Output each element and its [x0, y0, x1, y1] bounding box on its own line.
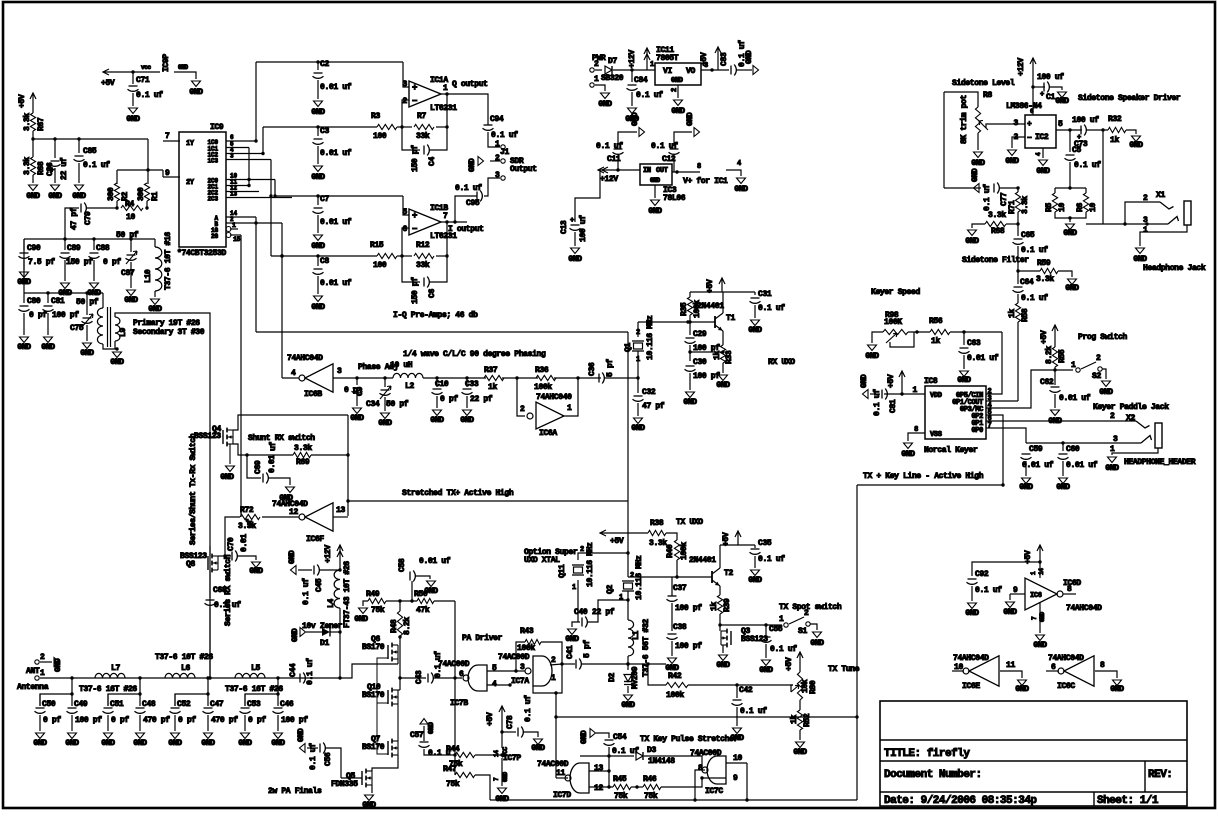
- svg-text:L10: L10: [144, 269, 153, 283]
- capacitor C79 47pf: [86, 207, 117, 209]
- capacitor C13 100uf: [575, 170, 600, 222]
- svg-text:0.01 uf: 0.01 uf: [1066, 461, 1098, 470]
- ground: [751, 570, 760, 576]
- ground: [478, 157, 484, 166]
- wire -in: [402, 228, 409, 256]
- svg-text:C87: C87: [121, 269, 135, 278]
- svg-text:FDN335: FDN335: [331, 780, 358, 789]
- ground: [601, 93, 610, 99]
- svg-text:VSS: VSS: [930, 431, 942, 439]
- svg-text:GND: GND: [1133, 255, 1147, 264]
- svg-text:X2: X2: [1126, 414, 1135, 423]
- ground: [83, 343, 92, 349]
- svg-text:GND: GND: [126, 115, 140, 124]
- ground: [20, 337, 29, 343]
- capacitor C48 470 pf: [139, 694, 141, 706]
- capacitor C41 5pf: [575, 660, 577, 669]
- svg-text:C69: C69: [254, 460, 263, 474]
- svg-text:R44: R44: [446, 745, 460, 754]
- inverter IC6D: [1039, 562, 1041, 578]
- svg-text:2: 2: [403, 97, 408, 106]
- svg-text:C75: C75: [70, 324, 84, 333]
- ground: [1113, 680, 1122, 686]
- op-amp IC1A: [409, 81, 441, 107]
- wire stretched TX: [348, 500, 628, 502]
- svg-text:0.1 uf: 0.1 uf: [612, 747, 639, 756]
- svg-text:R15: R15: [370, 241, 384, 250]
- ground sideways: [863, 390, 869, 399]
- svg-text:Norcal Keyer: Norcal Keyer: [924, 446, 978, 455]
- resistor R1 300: [147, 170, 149, 184]
- svg-text:8K trim pot: 8K trim pot: [960, 94, 969, 144]
- svg-text:GND: GND: [41, 343, 55, 352]
- ground: [171, 733, 180, 739]
- svg-text:0.1 uf: 0.1 uf: [636, 91, 663, 100]
- diode D3 1N4148: [580, 755, 634, 757]
- pin4 wire to prog switch: [986, 370, 1055, 408]
- svg-text:R68: R68: [991, 227, 1005, 236]
- pin3 wire to sidetone: [986, 400, 1018, 402]
- svg-text:GND: GND: [101, 739, 115, 748]
- ground sideways: [300, 628, 306, 637]
- svg-text:R12: R12: [416, 241, 430, 250]
- IC9 pin bubbles: [226, 227, 231, 232]
- svg-text:2: 2: [40, 653, 45, 662]
- svg-text:0.1 uf: 0.1 uf: [983, 184, 992, 211]
- svg-text:C43: C43: [415, 670, 424, 684]
- svg-text:C94: C94: [490, 115, 504, 124]
- inductor L2 10uH: [357, 377, 393, 379]
- capacitor C57: [420, 719, 428, 725]
- svg-text:10 uH: 10 uH: [390, 361, 413, 370]
- ground: [624, 695, 633, 701]
- pin6 wire paddle dot: [986, 420, 1136, 422]
- svg-text:100: 100: [373, 261, 387, 270]
- resistor R12 33k: [397, 255, 412, 257]
- svg-text:2: 2: [636, 329, 640, 337]
- resistor R48 8.2k: [399, 601, 401, 611]
- svg-text:C12: C12: [662, 155, 676, 164]
- svg-text:100 pf: 100 pf: [693, 372, 720, 381]
- ground: [365, 795, 374, 801]
- svg-text:−: −: [412, 97, 417, 107]
- svg-text:GND: GND: [502, 771, 509, 782]
- wire pin10 to C7 row: [274, 180, 276, 197]
- svg-text:GND: GND: [1105, 464, 1119, 473]
- svg-text:GND: GND: [354, 615, 368, 624]
- svg-text:GND: GND: [965, 609, 979, 618]
- ground: [252, 562, 261, 568]
- ground: [359, 608, 368, 614]
- wire +in: [403, 62, 409, 87]
- capacitor C56: [341, 777, 362, 779]
- svg-text:1: 1: [551, 674, 556, 683]
- svg-text:+5V: +5V: [785, 657, 794, 671]
- svg-text:C7: C7: [320, 195, 329, 204]
- svg-text:TX Key Pulse Stretcher: TX Key Pulse Stretcher: [640, 735, 738, 744]
- inductor L4 FT37-43: [334, 570, 340, 608]
- svg-text:OUT: OUT: [656, 167, 668, 175]
- svg-text:IC9P: IC9P: [162, 54, 171, 72]
- wire C41 row: [562, 663, 575, 665]
- svg-text:C60: C60: [1066, 445, 1080, 454]
- svg-text:0.01 uf: 0.01 uf: [419, 557, 451, 566]
- svg-text:IC6D: IC6D: [1063, 579, 1081, 588]
- svg-text:C29: C29: [693, 330, 707, 339]
- svg-text:0.01 uf: 0.01 uf: [320, 218, 352, 227]
- capacitor C36 5pf: [554, 377, 601, 379]
- svg-text:R58: R58: [1021, 308, 1030, 322]
- svg-text:8: 8: [698, 764, 703, 773]
- svg-text:75k: 75k: [614, 792, 628, 801]
- svg-text:C35: C35: [758, 539, 772, 548]
- svg-text:3.3k: 3.3k: [23, 113, 32, 131]
- capacitor C35: [754, 545, 756, 548]
- svg-text:C59: C59: [1029, 445, 1043, 454]
- ground: [1058, 92, 1067, 98]
- svg-text:13: 13: [336, 506, 345, 515]
- svg-text:+: +: [1040, 91, 1044, 99]
- svg-text:uf: uf: [269, 442, 278, 451]
- svg-text:1: 1: [232, 222, 236, 229]
- ground: [1008, 150, 1017, 156]
- svg-text:IC6A: IC6A: [539, 429, 557, 438]
- ground: [20, 272, 29, 278]
- svg-text:10.116 MHz: 10.116 MHz: [586, 542, 595, 587]
- svg-text:C83: C83: [720, 52, 729, 66]
- ground: [762, 660, 771, 666]
- svg-text:0.01: 0.01: [240, 534, 249, 552]
- svg-text:VO: VO: [686, 67, 695, 76]
- ground: [51, 185, 60, 191]
- capacitor C54: [590, 729, 596, 738]
- wire Q4 drain: [233, 415, 348, 430]
- svg-text:10: 10: [733, 754, 742, 763]
- svg-text:C13: C13: [560, 220, 569, 234]
- svg-text:C38: C38: [673, 623, 687, 632]
- svg-text:GND: GND: [288, 550, 297, 564]
- svg-text:+5V: +5V: [18, 94, 27, 108]
- svg-text:GND: GND: [748, 576, 762, 585]
- svg-text:C33: C33: [465, 380, 479, 389]
- svg-text:TX Spot switch: TX Spot switch: [779, 603, 842, 612]
- ground sideways: [291, 566, 297, 575]
- power +5V arrow tune: [799, 652, 801, 672]
- ground: [968, 230, 977, 236]
- svg-text:100k: 100k: [666, 691, 684, 700]
- svg-text:TX Tune: TX Tune: [828, 665, 860, 674]
- svg-text:IC6E: IC6E: [962, 682, 980, 691]
- svg-text:0.1 uf: 0.1 uf: [975, 586, 1002, 595]
- resistor R5 10: [1055, 187, 1086, 189]
- svg-text:Q8: Q8: [186, 560, 195, 569]
- connector J1 SDR output: [501, 145, 505, 149]
- svg-text:74AC00D: 74AC00D: [498, 653, 530, 662]
- svg-text:R39: R39: [723, 598, 732, 612]
- svg-text:R56: R56: [929, 317, 943, 326]
- svg-text:+12V: +12V: [1017, 58, 1026, 76]
- svg-text:150 pf: 150 pf: [66, 258, 93, 267]
- ground: [1066, 224, 1075, 230]
- svg-text:1: 1: [594, 75, 599, 84]
- svg-text:GND: GND: [1015, 685, 1029, 694]
- ground: [571, 248, 580, 254]
- svg-text:100 pf: 100 pf: [675, 642, 702, 651]
- ground: [737, 178, 746, 184]
- svg-text:GND: GND: [362, 801, 376, 810]
- svg-text:GND: GND: [65, 739, 79, 748]
- svg-text:GND: GND: [1065, 284, 1079, 293]
- svg-text:GND: GND: [178, 64, 189, 71]
- svg-text:T37-6 16T #26: T37-6 16T #26: [225, 685, 283, 694]
- svg-text:+12V: +12V: [628, 50, 637, 68]
- svg-text:+12V: +12V: [600, 175, 618, 184]
- svg-text:0 pf: 0 pf: [29, 311, 47, 320]
- svg-text:10: 10: [1089, 203, 1098, 212]
- wire: [147, 139, 149, 170]
- svg-text:GND: GND: [671, 77, 683, 85]
- svg-text:UXO XTAL: UXO XTAL: [524, 556, 560, 565]
- capacitor C63: [963, 332, 965, 345]
- ground: [634, 418, 643, 424]
- svg-text:IC7A: IC7A: [511, 677, 529, 686]
- svg-text:12: 12: [594, 784, 603, 793]
- ground: [353, 408, 362, 414]
- svg-text:5: 5: [492, 664, 497, 673]
- svg-text:LT6231: LT6231: [430, 104, 457, 113]
- resistor R4 10: [116, 201, 118, 208]
- power +5V arrow: [720, 544, 755, 546]
- capacitor C1 100uf: [1033, 86, 1045, 88]
- svg-text:2: 2: [630, 572, 634, 580]
- wire to crystal column: [627, 332, 629, 577]
- svg-text:GND: GND: [201, 739, 215, 748]
- svg-text:0.01 uf: 0.01 uf: [320, 83, 352, 92]
- ground: [1136, 248, 1145, 254]
- svg-text:C80: C80: [27, 297, 41, 306]
- svg-text:C40: C40: [574, 608, 588, 617]
- svg-text:GND: GND: [580, 730, 589, 744]
- svg-text:8.2k: 8.2k: [403, 617, 412, 635]
- svg-text:R46: R46: [643, 775, 657, 784]
- svg-text:GND: GND: [865, 352, 879, 361]
- svg-text:3: 3: [230, 153, 234, 160]
- ground: [204, 733, 213, 739]
- svg-text:1C3: 1C3: [207, 158, 218, 165]
- svg-text:13: 13: [230, 191, 238, 198]
- svg-text:GND: GND: [748, 326, 762, 335]
- svg-text:75k: 75k: [446, 780, 460, 789]
- wire I channel input: [275, 195, 403, 197]
- svg-text:T37-6 10T #16: T37-6 10T #16: [164, 232, 173, 290]
- ground: [36, 733, 45, 739]
- svg-text:TITLE: firefly: TITLE: firefly: [884, 748, 970, 760]
- svg-text:MV209: MV209: [631, 666, 640, 689]
- resistor R40 100k: [666, 533, 677, 540]
- svg-text:FT37-43 10T #26: FT37-43 10T #26: [343, 561, 352, 628]
- resistor R7 33k: [397, 126, 412, 128]
- switch S2: [1055, 369, 1073, 371]
- svg-text:VI: VI: [663, 67, 672, 76]
- transistor T2 2N4401: [628, 576, 712, 578]
- svg-text:C95: C95: [466, 199, 480, 208]
- svg-text:Sidetone Speaker Driver: Sidetone Speaker Driver: [1078, 94, 1181, 103]
- svg-text:GND: GND: [238, 739, 252, 748]
- ground: [1022, 478, 1031, 484]
- wire output: [441, 221, 467, 223]
- ground: [286, 487, 295, 493]
- svg-text:150 pf: 150 pf: [411, 277, 420, 304]
- svg-text:22 pf: 22 pf: [470, 395, 493, 404]
- ground: [686, 392, 695, 398]
- ground: [75, 185, 84, 191]
- IC3 78L06 box: [640, 164, 672, 185]
- ground: [229, 444, 231, 464]
- ground: [974, 152, 983, 158]
- svg-text:GND: GND: [189, 88, 203, 97]
- svg-text:T37-6 16T #26: T37-6 16T #26: [79, 685, 137, 694]
- svg-text:GND: GND: [430, 416, 444, 425]
- wire TX-RX bus: [209, 318, 211, 678]
- svg-text:R67: R67: [37, 117, 46, 131]
- svg-text:5 pf: 5 pf: [583, 640, 592, 658]
- svg-text:GND: GND: [631, 112, 640, 126]
- op-amp IC1B: [409, 209, 441, 235]
- wire VO +5V: [701, 69, 729, 71]
- svg-text:33k: 33k: [416, 261, 430, 270]
- svg-text:R36: R36: [535, 366, 549, 375]
- svg-text:GND: GND: [460, 416, 474, 425]
- svg-text:Stretched TX+ Active High: Stretched TX+ Active High: [402, 489, 514, 498]
- svg-text:1Y: 1Y: [186, 140, 195, 148]
- svg-text:9: 9: [733, 774, 738, 783]
- capacitor C88 0pf: [93, 239, 95, 250]
- svg-text:+5V: +5V: [101, 79, 115, 88]
- svg-text:C79: C79: [84, 211, 93, 225]
- svg-text:I-Q Pre-Amps; 46 db: I-Q Pre-Amps; 46 db: [393, 311, 478, 320]
- svg-text:7805T: 7805T: [656, 54, 679, 63]
- capacitor C10 0pf: [436, 378, 438, 387]
- svg-text:C11: C11: [607, 155, 621, 164]
- capacitor C80 0pf: [23, 293, 25, 303]
- svg-text:1: 1: [1071, 361, 1076, 370]
- svg-text:10.116 MHz: 10.116 MHz: [646, 315, 655, 360]
- svg-text:C81: C81: [889, 399, 898, 413]
- resistor R50 47k: [386, 600, 417, 602]
- wire: [24, 292, 103, 294]
- svg-text:33k: 33k: [416, 132, 430, 141]
- svg-text:74AHC04D: 74AHC04D: [1066, 604, 1102, 613]
- power +12V PA: [339, 545, 341, 570]
- svg-text:7: 7: [443, 212, 448, 221]
- svg-text:GND: GND: [734, 185, 748, 194]
- wire cap pair rails: [40, 678, 72, 706]
- svg-text:Series/Shunt Tx-Rx Switch: Series/Shunt Tx-Rx Switch: [189, 433, 198, 545]
- svg-text:8: 8: [697, 163, 701, 171]
- svg-text:2N4401: 2N4401: [697, 302, 724, 311]
- svg-text:100: 100: [373, 132, 387, 141]
- inductor L7: [95, 673, 125, 678]
- svg-text:3.3k: 3.3k: [23, 157, 32, 175]
- svg-text:C88: C88: [96, 244, 110, 253]
- svg-text:GND: GND: [648, 207, 662, 216]
- ground: [314, 101, 323, 107]
- resistor R39 1k: [719, 593, 721, 595]
- svg-text:50 pf: 50 pf: [116, 231, 139, 240]
- wire TX key to stretcher: [556, 693, 857, 717]
- svg-text:GND: GND: [860, 374, 869, 388]
- svg-text:74AC00D: 74AC00D: [438, 660, 470, 669]
- capacitor C49 100 pf: [71, 694, 73, 706]
- power +5V arrow: [901, 371, 903, 394]
- svg-text:GND: GND: [1056, 483, 1070, 492]
- capacitor C71: [132, 72, 134, 84]
- svg-text:L9: L9: [119, 328, 128, 337]
- power +12V arrow left: [598, 169, 640, 171]
- svg-text:C78: C78: [506, 715, 515, 729]
- svg-text:5: 5: [1058, 120, 1063, 129]
- svg-text:0 pf: 0 pf: [248, 716, 266, 725]
- svg-text:C70: C70: [227, 537, 236, 551]
- ground: [90, 283, 99, 289]
- svg-text:D2: D2: [608, 673, 617, 682]
- wire: [33, 138, 148, 140]
- svg-text:0.1 uf: 0.1 uf: [770, 645, 797, 654]
- resistor R15 100: [377, 253, 397, 258]
- svg-text:470 pf: 470 pf: [143, 716, 170, 725]
- svg-text:3.3k: 3.3k: [988, 211, 1006, 220]
- svg-text:IC6: IC6: [1030, 592, 1042, 600]
- ground: [1108, 457, 1117, 463]
- svg-text:0.1 uf: 0.1 uf: [309, 743, 318, 770]
- capacitor C11: [617, 156, 619, 170]
- ground: [241, 733, 250, 739]
- ground: [314, 166, 323, 172]
- svg-text:C5: C5: [1072, 146, 1081, 155]
- svg-text:470 pf: 470 pf: [211, 716, 238, 725]
- svg-text:50 pf: 50 pf: [386, 400, 409, 409]
- svg-text:+5V: +5V: [1040, 330, 1049, 344]
- svg-text:R52: R52: [803, 713, 812, 727]
- svg-text:GND: GND: [650, 177, 661, 184]
- svg-text:R49: R49: [366, 590, 380, 599]
- power +5V arrow: [32, 93, 34, 113]
- svg-text:C31: C31: [758, 290, 772, 299]
- svg-text:100k: 100k: [534, 383, 552, 392]
- svg-text:C90: C90: [27, 244, 41, 253]
- svg-text:47k: 47k: [416, 606, 430, 615]
- svg-text:V+ for IC1: V+ for IC1: [683, 177, 728, 186]
- crystal Q1 10.116MHz: [637, 322, 639, 337]
- svg-text:Sidetone Filter: Sidetone Filter: [962, 256, 1029, 265]
- svg-text:GND: GND: [297, 728, 306, 742]
- svg-text:SB320: SB320: [601, 74, 624, 83]
- svg-text:GND: GND: [1129, 141, 1143, 150]
- svg-text:GND: GND: [965, 237, 979, 246]
- ground: [433, 410, 442, 416]
- svg-text:R7: R7: [417, 112, 426, 121]
- wire Q7 source to Q5: [372, 755, 398, 771]
- svg-text:GND: GND: [957, 376, 971, 385]
- svg-text:1: 1: [572, 584, 576, 592]
- svg-text:1k: 1k: [931, 337, 940, 346]
- svg-text:IC6C: IC6C: [1057, 682, 1075, 691]
- svg-text:9: 9: [165, 169, 170, 178]
- ground: [1018, 680, 1027, 686]
- wire secondary to switch: [115, 313, 210, 318]
- svg-text:C34: C34: [366, 400, 380, 409]
- svg-text:GND: GND: [1036, 167, 1050, 176]
